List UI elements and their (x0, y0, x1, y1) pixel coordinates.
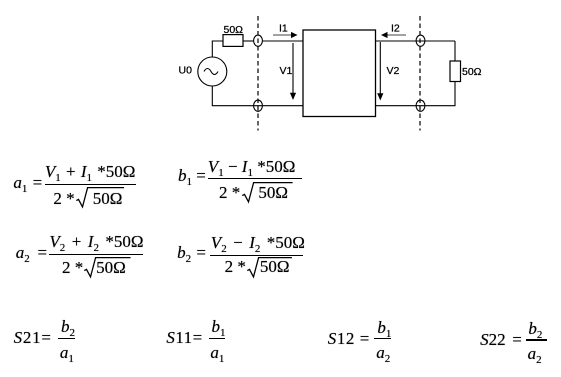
wire source top to resistor (212, 41, 223, 57)
equation a2: radical sign (84, 257, 131, 279)
equation S12: denominator (376, 344, 390, 364)
equation S11: fraction bar (209, 338, 225, 339)
equation b1: lead (178, 167, 206, 187)
equation S22: fraction bar (526, 339, 547, 340)
equation a1: fraction bar (45, 184, 136, 185)
equation b2: denominator 2* (225, 258, 246, 275)
load resistor 50 ohm (450, 61, 461, 82)
equation b1: radical sign (242, 182, 293, 204)
equation S21: lead (14, 329, 52, 346)
svg-text:V1: V1 (280, 65, 293, 77)
svg-text:V2: V2 (387, 65, 400, 77)
voltage arrow V2 (379, 42, 381, 94)
svg-text:50Ω: 50Ω (462, 66, 482, 78)
wire output node to load top (454, 41, 456, 61)
equation b1: numerator (208, 158, 296, 178)
equation b1: fraction bar (208, 178, 302, 179)
equation a2: fraction bar (49, 254, 143, 255)
equation S11: denominator (210, 344, 224, 364)
equation S12: fraction bar (374, 338, 391, 339)
wire source bottom to box (bottom rail left) (212, 86, 303, 106)
current arrow I2 (387, 34, 407, 36)
equation S22: denominator (528, 345, 542, 365)
input port dashed reference line (257, 16, 259, 131)
equation a1: lead (13, 174, 42, 194)
voltage arrow V1 (292, 43, 294, 93)
svg-text:U0: U0 (179, 65, 193, 77)
equation S21: fraction bar (58, 338, 75, 339)
equation b1: denominator 2* (219, 184, 240, 201)
equation S21: denominator (60, 344, 74, 364)
equation b2: numerator (211, 234, 305, 254)
sine symbol inside U0 (204, 69, 218, 75)
equation b2: radical sign (247, 257, 292, 279)
source U0 circle (198, 57, 227, 86)
equation a2: radicand (96, 259, 126, 276)
circuit schematic SVG (0, 0, 561, 145)
equation S21: numerator (61, 318, 75, 338)
equation S22: numerator (528, 320, 542, 340)
svg-text:I1: I1 (279, 23, 288, 35)
equation b2: fraction bar (210, 255, 303, 256)
current arrow I1 (273, 34, 292, 36)
equation a1: radical sign (76, 187, 125, 209)
input node bottom circle (254, 100, 263, 111)
input node top circle (254, 35, 263, 46)
wire load bottom to bottom rail (376, 82, 456, 106)
wire resistor to input node (243, 40, 253, 42)
equation S12: numerator (377, 319, 391, 339)
equation a1: radicand (93, 190, 123, 207)
output port dashed reference line (419, 16, 421, 131)
equation a2: denominator 2* (62, 259, 83, 276)
equation b2: lead (177, 244, 206, 264)
wire box to output node top (376, 40, 456, 42)
svg-text:50Ω: 50Ω (224, 24, 244, 36)
resistor 50 ohm series (223, 35, 243, 47)
output node top circle (416, 35, 425, 46)
equation S11: numerator (212, 318, 226, 338)
equation b2: radicand (260, 258, 290, 275)
equation a1: numerator (45, 163, 136, 183)
equation S12: lead (328, 330, 370, 347)
equation a1: denominator 2* (53, 190, 74, 207)
output node bottom circle (416, 100, 425, 111)
wire input node to box (263, 40, 303, 42)
equation b1: radicand (258, 184, 288, 201)
equation S11: lead (166, 329, 202, 346)
equation S22: lead (480, 331, 522, 348)
equation a2: numerator (49, 233, 143, 253)
equation a2: lead (16, 244, 47, 264)
svg-text:I2: I2 (391, 23, 400, 35)
two-port box (303, 30, 376, 117)
